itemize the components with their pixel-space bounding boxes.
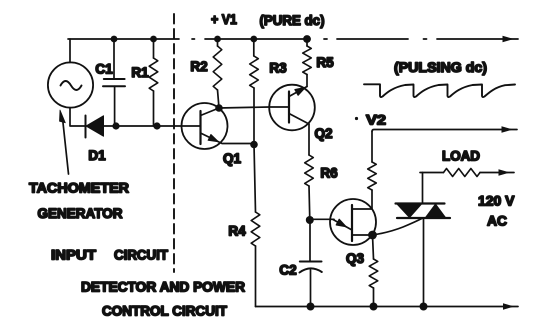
node dot R3 top <box>250 36 257 43</box>
resistor R3 <box>250 39 259 145</box>
resistor R1 <box>149 39 158 126</box>
svg-text:CONTROL CIRCUIT: CONTROL CIRCUIT <box>102 303 227 319</box>
resistor R4 <box>251 145 260 307</box>
node dot C1 top <box>111 36 118 43</box>
label R4 <box>228 224 246 239</box>
node dot R1 bottom <box>153 122 160 129</box>
svg-text:+ V1: + V1 <box>211 11 237 27</box>
svg-text:INPUT: INPUT <box>51 247 96 263</box>
node dot R5 top <box>303 35 311 43</box>
svg-text:R6: R6 <box>320 166 338 181</box>
UJT Q3 <box>310 190 376 245</box>
node dot C2 bottom <box>307 303 315 311</box>
label R6 <box>320 166 338 181</box>
svg-text:LOAD: LOAD <box>442 148 480 164</box>
label Q1 <box>223 151 242 166</box>
label DETECTOR AND POWER CONTROL CIRCUIT <box>81 279 245 319</box>
wire bottom rail with arrow <box>256 303 519 309</box>
label LOAD <box>442 148 480 164</box>
svg-text:Q2: Q2 <box>314 126 332 141</box>
svg-text:R1: R1 <box>131 65 149 80</box>
resistor R6 <box>305 124 314 220</box>
svg-text:DETECTOR AND POWER: DETECTOR AND POWER <box>81 279 245 295</box>
wire top +V1 rail solid <box>68 38 310 40</box>
label Q3 <box>346 251 365 266</box>
label +V1 <box>211 11 237 27</box>
label R2 <box>190 59 207 74</box>
svg-text:C2: C2 <box>279 263 296 278</box>
svg-text:TACHOMETER: TACHOMETER <box>29 180 129 196</box>
label TACHOMETER GENERATOR <box>29 180 129 222</box>
capacitor C2 <box>300 220 322 307</box>
node dot Q1 emitter junction <box>250 141 258 149</box>
wire gate to triac <box>373 219 422 236</box>
resistor B2 to V2 <box>368 132 377 191</box>
wire D1 to Q1 base <box>104 125 201 127</box>
node dot R2 top <box>214 36 221 43</box>
svg-text:AC: AC <box>487 213 507 229</box>
node dot R6 C2 Q3 junction <box>306 216 314 224</box>
svg-text:Q1: Q1 <box>223 151 242 166</box>
svg-text:R4: R4 <box>228 224 246 239</box>
svg-text:R5: R5 <box>316 55 334 70</box>
node dot triac bottom <box>420 303 428 311</box>
label R3 <box>269 61 287 76</box>
wire V2 rail with arrow <box>372 126 517 132</box>
svg-text:V2: V2 <box>366 112 386 128</box>
load resistor <box>420 169 514 177</box>
svg-text:D1: D1 <box>88 148 106 163</box>
label D1 <box>88 148 106 163</box>
label 120 V AC <box>478 193 515 229</box>
resistor R5 <box>303 39 312 87</box>
pulsing dc waveform <box>364 84 515 97</box>
capacitor C1 <box>103 39 125 126</box>
svg-text:C1: C1 <box>95 62 113 77</box>
svg-text:(PULSING dc): (PULSING dc) <box>394 59 487 75</box>
label V2 <box>355 112 386 128</box>
label R1 <box>131 65 149 80</box>
triac <box>396 173 451 307</box>
label C1 <box>95 62 113 77</box>
svg-text:120 V: 120 V <box>478 193 515 209</box>
transistor Q1 <box>182 103 255 149</box>
label PULSING dc <box>394 59 487 75</box>
node dot Q3 B1 junction <box>368 231 377 240</box>
label PURE dc <box>260 12 325 28</box>
label R5 <box>316 55 334 70</box>
wire top rail dash-dot with arrow <box>324 36 518 42</box>
node dot Q1 collector <box>215 104 223 112</box>
resistor B1 to ground <box>369 235 378 307</box>
svg-text:CIRCUIT: CIRCUIT <box>114 247 168 263</box>
diode D1 <box>86 116 104 138</box>
svg-text:(PURE dc): (PURE dc) <box>260 12 325 28</box>
wire Q1 collector to Q2 base <box>219 107 270 108</box>
node dot R1 top <box>150 36 157 43</box>
node dot B1 resistor bottom <box>370 303 378 311</box>
dashed separator line <box>173 14 175 272</box>
label Q2 <box>314 126 332 141</box>
leader arrow to generator <box>60 110 69 174</box>
svg-text:R3: R3 <box>269 61 287 76</box>
transistor Q2 <box>269 85 315 131</box>
resistor R2 <box>213 39 222 108</box>
svg-text:GENERATOR: GENERATOR <box>38 205 123 221</box>
svg-text:Q3: Q3 <box>346 251 365 266</box>
node dot C1 bottom <box>112 122 119 129</box>
label INPUT CIRCUIT <box>51 247 168 263</box>
label C2 <box>279 263 296 278</box>
svg-text:R2: R2 <box>190 59 207 74</box>
generator G tachometer <box>48 39 93 126</box>
